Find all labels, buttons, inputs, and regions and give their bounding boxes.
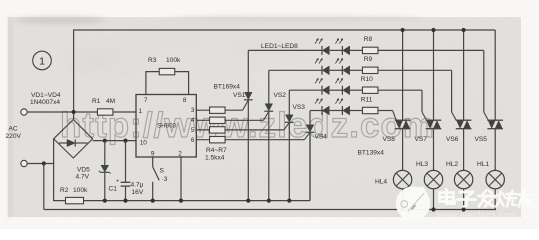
node switch bottom (151, 199, 155, 203)
node pin2 bottom (179, 199, 183, 203)
wire VS5 MT2 (494, 30, 496, 120)
label HL1 (477, 161, 489, 168)
triac VS6 (456, 120, 472, 170)
resistor R9 (362, 56, 378, 73)
label HL4 (375, 179, 387, 186)
wire AC line1 to R1 and pin1 (27, 111, 136, 113)
triac VS8 (395, 120, 411, 170)
label VS5 (475, 136, 488, 143)
svg-text:R8: R8 (364, 36, 373, 43)
svg-text:100k: 100k (73, 187, 88, 194)
node C1 top (123, 139, 127, 143)
svg-text:R9: R9 (364, 56, 373, 63)
bridge rectifier VD1-VD4 (54, 120, 93, 159)
node VS1 cathode bottom (246, 199, 250, 203)
node AC1/bridge junction (72, 110, 76, 114)
svg-text:HL2: HL2 (446, 161, 458, 168)
pin 5 (191, 127, 195, 134)
node VS3 cathode bottom (287, 199, 291, 203)
label VS2 (274, 92, 287, 99)
node rail VS6 (462, 28, 466, 32)
resistor R1 (92, 98, 115, 115)
svg-text:HL3: HL3 (416, 161, 428, 168)
wire bottom rail (44, 209, 496, 211)
svg-text:220V: 220V (6, 133, 22, 140)
wire VS4 corner (309, 132, 311, 200)
led LED2 (335, 38, 349, 55)
resistor R5 (196, 112, 268, 124)
resistor R6 (196, 123, 289, 133)
label BT139x4 (358, 150, 385, 157)
wire VS7 MT2 (433, 30, 435, 120)
node rail VS7 (431, 28, 435, 32)
lamp HL1 (486, 170, 504, 209)
thyristor VS3 (285, 90, 294, 200)
svg-text:10: 10 (140, 140, 148, 147)
wire pin2 down (180, 157, 182, 201)
led LED4 (335, 58, 349, 75)
node C1 bottom (123, 199, 127, 203)
lamp HL4 (393, 170, 411, 209)
pin 10 (140, 140, 148, 147)
wire VS6 MT2 (463, 30, 465, 120)
triac VS5 (487, 120, 503, 170)
label LED1~LED8 (261, 43, 298, 50)
svg-text:VS3: VS3 (293, 104, 306, 111)
label VD5 4.7V (76, 167, 91, 181)
svg-text:4M: 4M (106, 98, 115, 105)
node rail VS8 (401, 28, 405, 32)
svg-text:1: 1 (139, 108, 143, 115)
zener diode VD5 (99, 141, 111, 201)
svg-text:1.5kx4: 1.5kx4 (205, 155, 225, 162)
wire left vertical (73, 30, 75, 120)
svg-text:VS5: VS5 (475, 136, 488, 143)
resistor R10 (361, 76, 378, 93)
svg-text:4.7μ: 4.7μ (131, 182, 144, 189)
svg-text:S: S (160, 168, 165, 175)
svg-text:16V: 16V (132, 189, 144, 196)
svg-text:SH803: SH803 (157, 123, 176, 130)
node HL3 bottom (431, 207, 435, 211)
pin 8 (183, 97, 187, 104)
switch S (153, 157, 168, 201)
svg-text:+: + (116, 179, 119, 185)
wire LED row 2 (269, 70, 457, 120)
svg-text:2: 2 (178, 151, 182, 158)
svg-text:R4~R7: R4~R7 (206, 147, 227, 154)
label R4~R7 value (205, 147, 227, 162)
lamp HL3 (424, 170, 442, 209)
resistor R7 (196, 133, 309, 143)
wire top rail (74, 29, 496, 31)
resistor R3 (146, 57, 189, 95)
wire VS8 MT2 (402, 30, 404, 120)
thyristor VS2 (264, 70, 273, 200)
op-amp IC U1 SH803 box (136, 95, 196, 158)
watermark url text (436, 210, 517, 220)
label VD1~VD4 (30, 92, 61, 106)
label BT169x4 (214, 84, 241, 91)
node HL4 bottom (401, 207, 405, 211)
capacitor C1 (116, 141, 130, 201)
node VD5 top (103, 139, 107, 143)
wire bridge left to AC2 (53, 139, 55, 201)
svg-text:·3: ·3 (162, 176, 168, 183)
svg-text:VS7: VS7 (415, 136, 428, 143)
svg-text:1N4007x4: 1N4007x4 (30, 99, 60, 106)
pin 1 (139, 108, 143, 115)
thyristor VS4 (306, 111, 315, 201)
watermark logo (396, 186, 430, 221)
lamp HL2 (454, 170, 472, 209)
resistor R4 (196, 101, 248, 114)
wire LED row 3 (289, 90, 426, 120)
terminal AC input 2 (21, 160, 27, 166)
label AC 220V (6, 126, 22, 141)
label VS1 (233, 92, 246, 99)
triac VS7 (426, 120, 442, 170)
svg-text:5: 5 (191, 127, 195, 134)
svg-text:4.7V: 4.7V (76, 174, 90, 181)
pin 4 (191, 117, 195, 124)
wire LED row 1 (248, 50, 488, 120)
watermark text (60, 106, 434, 145)
svg-text:1: 1 (39, 56, 45, 68)
svg-text:R3: R3 (148, 57, 157, 64)
svg-text:C1: C1 (109, 186, 118, 193)
svg-text:6: 6 (191, 137, 195, 144)
resistor R8 (362, 36, 378, 53)
led LED3 (315, 58, 329, 75)
svg-text:VS8: VS8 (383, 136, 396, 143)
led LED1 (315, 38, 329, 55)
svg-text:LED1~LED8: LED1~LED8 (261, 43, 298, 50)
svg-text:VS4: VS4 (315, 134, 328, 141)
svg-text:R1: R1 (92, 98, 101, 105)
svg-text:BT169x4: BT169x4 (214, 84, 241, 91)
watermark cn text (440, 190, 536, 207)
svg-text:AC: AC (9, 126, 18, 133)
label VS4 (315, 134, 328, 141)
label VS8 (383, 136, 396, 143)
svg-text:R10: R10 (361, 76, 373, 83)
led LED5 (315, 78, 329, 95)
led LED7 (315, 99, 329, 116)
svg-text:3: 3 (191, 107, 195, 114)
resistor R11 (361, 96, 378, 113)
svg-text:www.elecfans.com: www.elecfans.com (436, 210, 517, 220)
svg-text:HL1: HL1 (477, 161, 489, 168)
label VS7 (415, 136, 428, 143)
terminal AC input 1 (21, 109, 27, 115)
pin 2 (178, 151, 182, 158)
label HL3 (416, 161, 428, 168)
node VS2 cathode bottom (267, 199, 271, 203)
svg-text:9: 9 (151, 151, 155, 158)
wire LED row 4 (310, 111, 396, 121)
wire DC minus row (54, 200, 310, 202)
label VS6 (446, 136, 459, 143)
svg-text:HL4: HL4 (375, 179, 387, 186)
svg-text:R11: R11 (361, 96, 373, 103)
node HL2 bottom (462, 207, 466, 211)
svg-text:BT139x4: BT139x4 (358, 150, 385, 157)
svg-text:7: 7 (144, 97, 148, 104)
wire AC line2 (27, 163, 54, 165)
wire pin10 row (93, 140, 136, 142)
svg-text:VS1: VS1 (233, 92, 246, 99)
label C1 value (109, 182, 144, 197)
pin 3 (191, 107, 195, 114)
node VD5 bottom (103, 199, 107, 203)
pin 9 (151, 151, 155, 158)
svg-text:4: 4 (191, 117, 195, 124)
svg-text:VS2: VS2 (274, 92, 287, 99)
pin 6 (191, 137, 195, 144)
pin 7 (144, 97, 148, 104)
wire drop to bottom rail (43, 164, 45, 210)
svg-text:8: 8 (183, 97, 187, 104)
led LED6 (335, 78, 349, 95)
figure label (1) (33, 51, 52, 70)
svg-text:VD5: VD5 (77, 167, 90, 174)
svg-text:R2: R2 (60, 187, 69, 194)
svg-text:VD1~VD4: VD1~VD4 (31, 92, 61, 99)
resistor R2 (60, 187, 88, 204)
label HL2 (446, 161, 458, 168)
svg-text:100k: 100k (166, 57, 181, 64)
node AC2 junction (42, 161, 46, 165)
thyristor VS1 (244, 50, 253, 200)
led LED8 (335, 99, 349, 116)
label VS3 (293, 104, 306, 111)
svg-text:VS6: VS6 (446, 136, 459, 143)
